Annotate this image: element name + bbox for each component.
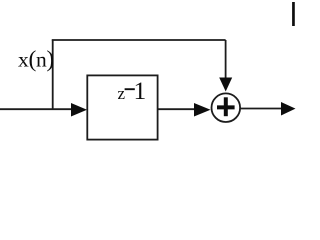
svg-text:1: 1 xyxy=(134,76,147,105)
node A: feedback tap vertical xyxy=(52,40,54,110)
wire: main input line xyxy=(0,108,73,110)
summing junction U1 xyxy=(212,93,241,122)
arrowhead into summer left xyxy=(194,103,211,117)
svg-text:x(n): x(n) xyxy=(18,46,54,72)
wire: feedback drop to summer xyxy=(225,40,227,79)
wire: summer output xyxy=(240,108,282,110)
wire: feedback top horizontal xyxy=(52,39,226,41)
wire: delay output to summer xyxy=(158,108,196,110)
arrowhead output right xyxy=(281,102,296,116)
svg-text:z: z xyxy=(118,84,126,103)
delay block z^-1 xyxy=(87,75,157,139)
cursor tick top right xyxy=(292,2,295,26)
plus sign xyxy=(217,105,235,109)
arrowhead into summer top xyxy=(219,78,232,92)
arrowhead into delay box xyxy=(71,103,87,117)
